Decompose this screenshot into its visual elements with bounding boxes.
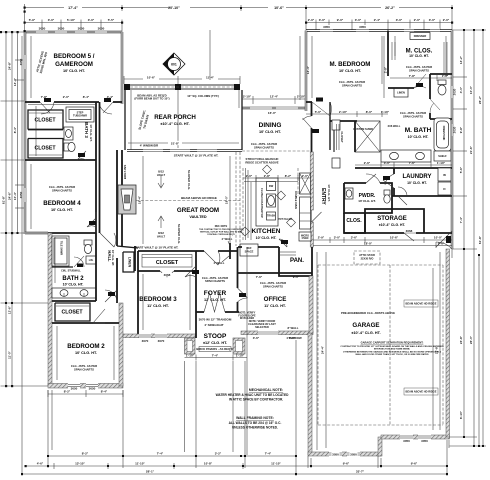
closet upper box bbox=[28, 110, 63, 130]
center long extension line bbox=[178, 30, 247, 455]
window 3050 b5 left bbox=[23, 55, 27, 69]
svg-text:10' CLG. HT.: 10' CLG. HT. bbox=[89, 124, 93, 142]
great room west wall lower bbox=[121, 212, 123, 246]
svg-text:IN ATTIC SPACE BY CONTRACTOR.: IN ATTIC SPACE BY CONTRACTOR. bbox=[229, 398, 283, 402]
svg-text:10" SQ. COLUMN (TYP.): 10" SQ. COLUMN (TYP.) bbox=[187, 94, 219, 98]
svg-text:13'-4": 13'-4" bbox=[306, 65, 310, 74]
svg-text:10'-6": 10'-6" bbox=[147, 76, 156, 80]
svg-text:VERTICAL OUTLET FOR WALL MTD T: VERTICAL OUTLET FOR WALL MTD TV AND bbox=[200, 230, 243, 233]
window 2020 mclos bbox=[404, 29, 414, 33]
stoop bottom dims bbox=[185, 355, 248, 361]
svg-text:VAULT: VAULT bbox=[157, 234, 166, 238]
kitchen east wall ovens bbox=[311, 108, 313, 116]
svg-text:8'-2": 8'-2" bbox=[64, 390, 71, 394]
corner tick dots bbox=[0, 11, 26, 305]
kitchen counter line bbox=[244, 181, 298, 183]
laundry top dim row bbox=[355, 162, 452, 168]
wall bedroom4 bottom bbox=[25, 232, 48, 234]
bath3 toilet bbox=[64, 142, 75, 151]
wall m block right bbox=[451, 31, 453, 250]
svg-text:CONCEAL CORDS AS REQ'D: CONCEAL CORDS AS REQ'D bbox=[207, 233, 235, 236]
svg-text:8/12: 8/12 bbox=[158, 231, 164, 235]
svg-text:BEDROOM 2: BEDROOM 2 bbox=[67, 343, 105, 350]
bath2 toilet bbox=[84, 240, 92, 254]
pwdr door bbox=[366, 174, 380, 183]
front door double swing bbox=[204, 293, 225, 312]
dim office top bbox=[256, 275, 300, 279]
svg-text:10' CLG. HT.: 10' CLG. HT. bbox=[358, 199, 376, 203]
pantry walls bbox=[279, 247, 312, 276]
svg-text:61'-8": 61'-8" bbox=[2, 195, 6, 204]
svg-text:8'-2": 8'-2" bbox=[82, 452, 89, 456]
svg-text:3050: 3050 bbox=[98, 26, 105, 30]
porch vert dim left bbox=[130, 90, 132, 150]
svg-text:3068: 3068 bbox=[164, 273, 171, 277]
row466 ticks bbox=[54, 463, 243, 469]
svg-text:10'-0": 10'-0" bbox=[434, 236, 443, 240]
svg-text:2'-0": 2'-0" bbox=[246, 174, 253, 178]
svg-text:WALL AND DOOR OTHER THAN 1-3/8: WALL AND DOOR OTHER THAN 1-3/8" THICK, O… bbox=[355, 353, 429, 356]
svg-text:17'-4": 17'-4" bbox=[68, 6, 78, 10]
window 3050 gar-4 bbox=[418, 434, 431, 443]
svg-text:OFFICE: OFFICE bbox=[264, 296, 287, 303]
hall east wall bbox=[116, 150, 118, 246]
svg-text:GARAGE CARPORT SEPARATION REQU: GARAGE CARPORT SEPARATION REQUIREMENT: bbox=[361, 341, 424, 345]
svg-text:VAULT: VAULT bbox=[157, 173, 166, 177]
window 3050 mb-1 bbox=[320, 25, 333, 33]
diamond marker 601 bbox=[163, 53, 185, 75]
svg-text:CLOSET: CLOSET bbox=[34, 118, 56, 124]
wall framing note bbox=[229, 416, 282, 430]
svg-text:SPAN CHARTS: SPAN CHARTS bbox=[409, 68, 429, 72]
svg-text:3'-0": 3'-0" bbox=[319, 18, 326, 22]
svg-text:9'-0": 9'-0" bbox=[337, 18, 344, 22]
window 3050 bed2-1 bbox=[68, 383, 80, 391]
svg-text:DOUBLE OVEN: DOUBLE OVEN bbox=[294, 191, 297, 209]
svg-text:LIN.: LIN. bbox=[89, 259, 94, 262]
svg-text:CLOSET: CLOSET bbox=[61, 310, 83, 316]
svg-text:4' WALL: 4' WALL bbox=[222, 237, 233, 241]
svg-text:ALL WALLS TO BE 2X4 @ 16" O.C.: ALL WALLS TO BE 2X4 @ 16" O.C. bbox=[229, 421, 282, 425]
garage separation note block bbox=[340, 341, 444, 357]
svg-text:10' CLG. HT.: 10' CLG. HT. bbox=[63, 283, 84, 287]
wall kitchen/pantry top bbox=[258, 246, 279, 248]
great room interior dims bbox=[143, 156, 230, 244]
vault arrow up bbox=[158, 175, 164, 188]
svg-text:11'-10": 11'-10" bbox=[135, 462, 145, 466]
left rotated dim labels bbox=[2, 61, 18, 314]
svg-text:2'-0": 2'-0" bbox=[443, 18, 450, 22]
svg-text:FOYER: FOYER bbox=[204, 290, 227, 297]
svg-text:3'-0": 3'-0" bbox=[355, 18, 362, 22]
garage side door bbox=[436, 231, 452, 249]
svg-text:TILE SHWR: TILE SHWR bbox=[60, 241, 64, 255]
svg-text:OTHERWISE BETWEEN THE GARAGE A: OTHERWISE BETWEEN THE GARAGE AND RESIDEN… bbox=[343, 350, 442, 353]
svg-text:POT FILLER: POT FILLER bbox=[278, 218, 292, 221]
exterior hatched wall bath2/bedroom2 left bbox=[48, 233, 52, 386]
svg-text:10'-4": 10'-4" bbox=[13, 191, 17, 200]
svg-text:KITCHEN: KITCHEN bbox=[252, 228, 281, 235]
svg-text:2'-10": 2'-10" bbox=[297, 95, 306, 99]
closet bed2 box bbox=[55, 303, 90, 321]
kitchen west counter solid bbox=[246, 168, 249, 240]
pendant diamond 4 bbox=[241, 227, 250, 236]
door swing b5 right bbox=[99, 102, 113, 114]
svg-text:26'-0": 26'-0" bbox=[469, 335, 473, 344]
wall dining left (porch) bbox=[241, 90, 243, 150]
bed2 door from hall bbox=[105, 290, 117, 302]
svg-text:SPAN CHARTS: SPAN CHARTS bbox=[74, 367, 94, 371]
svg-text:2'-10": 2'-10" bbox=[339, 110, 348, 114]
bottom-left extension lines bbox=[52, 361, 233, 452]
svg-text:START VAULT @ 10' PLATE HT.: START VAULT @ 10' PLATE HT. bbox=[174, 154, 219, 158]
svg-text:21'-8": 21'-8" bbox=[171, 141, 180, 145]
svg-text:14'-4": 14'-4" bbox=[13, 77, 17, 86]
pendant diamond 3 bbox=[287, 218, 296, 227]
svg-text:3'-6": 3'-6" bbox=[253, 336, 260, 340]
svg-text:3'-2": 3'-2" bbox=[215, 452, 222, 456]
top dim line row2 left bbox=[25, 20, 123, 35]
porch column right bbox=[234, 84, 240, 90]
bath2 vanity bbox=[52, 288, 96, 298]
svg-text:CLOSET: CLOSET bbox=[34, 146, 56, 152]
garage step wall bbox=[378, 437, 382, 456]
svg-text:BEDROOM 4: BEDROOM 4 bbox=[43, 200, 81, 207]
svg-text:BATH 2: BATH 2 bbox=[62, 276, 84, 282]
svg-text:10' CLG. HT.: 10' CLG. HT. bbox=[51, 208, 73, 212]
closet bed2 shelf bbox=[56, 305, 89, 307]
svg-text:3050: 3050 bbox=[89, 387, 96, 391]
svg-text:1'-10": 1'-10" bbox=[186, 353, 195, 357]
svg-text:9'-8": 9'-8" bbox=[459, 126, 463, 133]
window 3050 bed2-2 bbox=[86, 383, 98, 391]
foyer top door bbox=[204, 251, 220, 265]
wall foyer east bbox=[237, 247, 239, 288]
svg-text:5'-6": 5'-6" bbox=[459, 166, 463, 173]
bedroom3 door bbox=[185, 266, 196, 277]
dim 16-0 bbox=[266, 111, 279, 115]
kitchen west counter dashed bbox=[242, 168, 244, 240]
exterior hatched wall bedroom2 right bbox=[119, 303, 123, 386]
svg-text:OVEN: OVEN bbox=[302, 237, 309, 240]
svg-text:2'-8": 2'-8" bbox=[264, 174, 271, 178]
bath2 interior divider wall bbox=[52, 266, 73, 268]
svg-text:UNLESS OTHERWISE NOTED.: UNLESS OTHERWISE NOTED. bbox=[232, 426, 278, 430]
svg-text:SPAN CHARTS: SPAN CHARTS bbox=[254, 145, 274, 149]
svg-text:SPAN CHARTS: SPAN CHARTS bbox=[263, 284, 283, 288]
door swing b5 left bbox=[40, 102, 54, 114]
svg-text:4' SIDELIGHT: 4' SIDELIGHT bbox=[204, 323, 223, 327]
note brick pavers bbox=[196, 347, 234, 352]
garage top second dim row bbox=[313, 242, 452, 248]
wall m.bath bottom bbox=[355, 167, 452, 169]
window great room 3 bbox=[197, 149, 217, 153]
m.clos door bbox=[414, 74, 426, 88]
closet bed2 door bbox=[93, 309, 105, 323]
svg-text:10' CLG. HT.: 10' CLG. HT. bbox=[256, 236, 277, 240]
svg-text:23'-8": 23'-8" bbox=[435, 345, 439, 354]
svg-text:2'-4": 2'-4" bbox=[374, 18, 381, 22]
pwdr sink bbox=[345, 188, 353, 199]
svg-text:START VAULT @ 10' PLATE HT.: START VAULT @ 10' PLATE HT. bbox=[134, 246, 179, 250]
svg-text:12'-4": 12'-4" bbox=[270, 95, 279, 99]
stoop column right bbox=[233, 338, 245, 354]
svg-text:11'-0": 11'-0" bbox=[8, 350, 12, 359]
svg-text:24'-8": 24'-8" bbox=[459, 335, 463, 344]
label 4' window bbox=[284, 336, 304, 340]
window 3050 gar-3 bbox=[400, 434, 413, 443]
pendant diamond 1 bbox=[263, 165, 272, 174]
window 3050 b5-1 bbox=[36, 26, 48, 34]
svg-text:2030: 2030 bbox=[453, 126, 457, 133]
dining top dim bbox=[242, 96, 306, 104]
m.bath west hall wall bbox=[330, 120, 357, 122]
svg-text:24'-6": 24'-6" bbox=[8, 191, 12, 200]
svg-text:M. BATH: M. BATH bbox=[405, 127, 432, 134]
svg-text:GARAGE: GARAGE bbox=[352, 322, 379, 329]
svg-text:ENTRY: ENTRY bbox=[320, 188, 326, 205]
svg-text:24'-8": 24'-8" bbox=[8, 61, 12, 70]
svg-text:8'-0": 8'-0" bbox=[289, 336, 296, 340]
svg-text:WATER HEATER & HVAC UNIT TO BE: WATER HEATER & HVAC UNIT TO BE LOCATED bbox=[216, 393, 290, 397]
svg-text:16'-0": 16'-0" bbox=[268, 111, 277, 115]
kitchen island bbox=[256, 178, 278, 226]
pendant diamond 2 bbox=[277, 191, 286, 200]
garage extension lines bottom bbox=[308, 249, 452, 468]
closet lower shelf bbox=[29, 154, 62, 156]
window office south bbox=[258, 330, 278, 336]
window 2020 mclos2 bbox=[430, 29, 440, 33]
label linen m bbox=[394, 88, 408, 97]
svg-text:CML. STUDWALL: CML. STUDWALL bbox=[61, 270, 81, 273]
svg-text:10' CLG. HT.: 10' CLG. HT. bbox=[75, 351, 97, 355]
exterior wall office south bbox=[241, 331, 313, 335]
svg-text:2'-9": 2'-9" bbox=[318, 236, 325, 240]
svg-text:BATH 3: BATH 3 bbox=[84, 122, 89, 138]
svg-text:8' WALL: 8' WALL bbox=[288, 326, 299, 330]
label 3068 storage bbox=[404, 229, 414, 233]
wall bedroom5 right bbox=[121, 32, 123, 104]
svg-text:2X6 WALL: 2X6 WALL bbox=[388, 124, 401, 128]
dashed beam hd ridge bbox=[127, 200, 240, 202]
entry niche boxes bbox=[332, 120, 340, 168]
svg-text:7'-8": 7'-8" bbox=[409, 74, 416, 78]
laundry door bbox=[398, 187, 407, 205]
garage west wall hatched bbox=[308, 333, 312, 455]
svg-text:3'-0": 3'-0" bbox=[88, 18, 95, 22]
office east wall hatched bbox=[309, 276, 313, 333]
stoop column left bbox=[185, 338, 196, 354]
svg-text:10'-6": 10'-6" bbox=[390, 236, 399, 240]
porch dim labels bbox=[143, 75, 218, 80]
4' wall stub kitchen/foyer bbox=[229, 243, 231, 259]
svg-text:11'-4": 11'-4" bbox=[206, 76, 215, 80]
window 3050 gar-1 bbox=[329, 451, 342, 457]
svg-text:3'-0": 3'-0" bbox=[334, 236, 341, 240]
svg-text:FLUSH COUNTERTOP: FLUSH COUNTERTOP bbox=[260, 188, 264, 218]
svg-text:10' CLG. HT.: 10' CLG. HT. bbox=[63, 69, 85, 73]
svg-text:3050: 3050 bbox=[350, 452, 357, 456]
window 3050 b5-4 bbox=[95, 26, 107, 34]
svg-text:±12' CLG. HT.: ±12' CLG. HT. bbox=[203, 341, 227, 345]
svg-text:SPAN CHARTS: SPAN CHARTS bbox=[205, 279, 225, 283]
svg-text:SPAN CHARTS: SPAN CHARTS bbox=[342, 83, 362, 87]
svg-text:10'-6": 10'-6" bbox=[274, 6, 284, 10]
svg-text:10' CLG. HT.: 10' CLG. HT. bbox=[259, 130, 281, 134]
window great room 2 bbox=[170, 149, 190, 153]
svg-text:FREESTAND: FREESTAND bbox=[442, 126, 445, 141]
svg-text:TUB/SHWR: TUB/SHWR bbox=[73, 114, 87, 118]
svg-text:3050: 3050 bbox=[71, 387, 78, 391]
wall m.bedroom bottom bbox=[306, 101, 312, 103]
svg-text:SPAN CHARTS: SPAN CHARTS bbox=[52, 188, 72, 192]
svg-text:601: 601 bbox=[171, 63, 177, 67]
garage door label bbox=[446, 236, 451, 243]
dashed ceiling break dining bbox=[242, 150, 310, 152]
m.toilet room bbox=[430, 74, 452, 119]
right extra dim line bbox=[478, 255, 480, 446]
wall closet bed3 bottom bbox=[138, 270, 160, 272]
svg-text:8'-2": 8'-2" bbox=[285, 174, 292, 178]
window right m.toilet bbox=[450, 86, 454, 98]
svg-text:7'-4": 7'-4" bbox=[459, 216, 463, 223]
window dining bbox=[250, 106, 298, 110]
label 3068 bbox=[162, 273, 172, 277]
closet upper shelf bbox=[29, 112, 62, 114]
wall bedroom3 west bbox=[137, 271, 139, 334]
svg-text:21'-6": 21'-6" bbox=[469, 145, 473, 154]
svg-text:INTERSECTION AND TAMB MEMB.: INTERSECTION AND TAMB MEMB. bbox=[374, 348, 411, 351]
wall m.bedroom top bbox=[306, 29, 452, 31]
kitchen counter east dashed bbox=[297, 168, 299, 196]
kitchen interior dim bbox=[250, 182, 252, 240]
svg-text:3'-6": 3'-6" bbox=[351, 236, 358, 240]
svg-text:3050: 3050 bbox=[19, 191, 23, 198]
window 3070 bed3-2 bbox=[155, 333, 167, 343]
dim 21-8 bbox=[168, 141, 182, 145]
svg-text:LINEN: LINEN bbox=[397, 91, 405, 95]
svg-text:61'-8": 61'-8" bbox=[478, 235, 482, 244]
svg-text:1'-10": 1'-10" bbox=[381, 110, 390, 114]
kitchen tall cabinet bbox=[300, 197, 311, 229]
svg-text:18'-0": 18'-0" bbox=[364, 241, 373, 245]
double oven bbox=[294, 173, 311, 209]
svg-text:BUILT-INS: BUILT-INS bbox=[123, 165, 127, 179]
svg-text:3050: 3050 bbox=[39, 26, 46, 30]
svg-text:SPACE: SPACE bbox=[245, 249, 254, 253]
svg-text:1'-10": 1'-10" bbox=[236, 353, 245, 357]
svg-text:26'-2": 26'-2" bbox=[478, 95, 482, 104]
svg-text:7'-4": 7'-4" bbox=[212, 353, 219, 357]
svg-text:2'-0": 2'-0" bbox=[302, 174, 309, 178]
window 3050 gar-2 bbox=[347, 451, 360, 457]
bath3 tub box bbox=[66, 107, 94, 122]
svg-text:CONTRACTOR TO PROVIDE 1/2" GYP: CONTRACTOR TO PROVIDE 1/2" GYPSUM WALL B… bbox=[340, 345, 444, 348]
wall m.bedroom/m.clos bbox=[387, 31, 389, 77]
closet lower box bbox=[28, 139, 63, 159]
svg-text:2'-0": 2'-0" bbox=[308, 18, 315, 22]
svg-text:PRE-ENGINEERED CLG. JOISTS ABO: PRE-ENGINEERED CLG. JOISTS ABOVE bbox=[341, 311, 395, 315]
wall bedroom3 west upper bbox=[134, 246, 136, 271]
svg-text:BEAM ABOVE HD RIDGE: BEAM ABOVE HD RIDGE bbox=[406, 302, 437, 306]
window 3050 b5-2 bbox=[55, 26, 67, 34]
svg-text:3050: 3050 bbox=[323, 25, 330, 29]
svg-text:CUSTOM SHWR: CUSTOM SHWR bbox=[353, 127, 373, 131]
linen box bbox=[123, 252, 134, 272]
svg-text:3050: 3050 bbox=[359, 25, 366, 29]
m.toilet bbox=[438, 80, 446, 95]
svg-text:10'-8": 10'-8" bbox=[204, 462, 213, 466]
svg-text:3050: 3050 bbox=[58, 26, 65, 30]
top dim line row2 right bbox=[306, 20, 452, 33]
svg-text:REAR PORCH: REAR PORCH bbox=[154, 114, 196, 121]
entry-storage door bbox=[312, 210, 322, 222]
entry vestibule west wall bbox=[311, 102, 313, 108]
svg-text:CLOSET: CLOSET bbox=[156, 260, 179, 266]
svg-text:SLOPED CLG.: SLOPED CLG. bbox=[187, 170, 191, 191]
porch beam dashed center bbox=[130, 86, 234, 88]
svg-text:THE CONTRACTOR TO PROVIDE OVER: THE CONTRACTOR TO PROVIDE OVERSIZED bbox=[199, 228, 243, 231]
office door bbox=[238, 288, 248, 302]
beam label 2 bbox=[404, 388, 438, 395]
svg-text:3050: 3050 bbox=[332, 452, 339, 456]
svg-text:STORAGE: STORAGE bbox=[377, 216, 407, 222]
svg-text:5'-5": 5'-5" bbox=[108, 18, 115, 22]
svg-text:7'-6": 7'-6" bbox=[409, 161, 416, 165]
svg-text:2'-0": 2'-0" bbox=[414, 18, 421, 22]
closet bed3 inner shelf bbox=[142, 255, 192, 268]
svg-text:8/12: 8/12 bbox=[158, 170, 164, 174]
front wall stoop left bbox=[196, 311, 204, 313]
bath3/bed4 divider bbox=[25, 159, 96, 161]
svg-text:GAMEROOM: GAMEROOM bbox=[55, 61, 93, 68]
svg-text:3070: 3070 bbox=[158, 339, 165, 343]
svg-text:ATTIC STAIR: ATTIC STAIR bbox=[359, 253, 375, 257]
svg-text:3050: 3050 bbox=[78, 26, 85, 30]
svg-text:14'-2": 14'-2" bbox=[459, 55, 463, 64]
bath2 door tag bbox=[77, 264, 83, 268]
svg-text:3070 W/ 12" TRANSOM: 3070 W/ 12" TRANSOM bbox=[199, 317, 232, 321]
wall foyer top bbox=[196, 250, 204, 252]
label 3070 transom bbox=[200, 317, 230, 321]
m.bedroom interior dim bbox=[312, 36, 384, 98]
svg-text:DW: DW bbox=[269, 184, 274, 188]
svg-text:11' CLG. HT.: 11' CLG. HT. bbox=[264, 304, 286, 308]
window great room 1 bbox=[143, 149, 163, 153]
wall m.bedroom left bbox=[305, 31, 307, 112]
svg-text:4' WALL: 4' WALL bbox=[214, 261, 225, 265]
svg-text:8'-4": 8'-4" bbox=[101, 390, 108, 394]
left interior vertical dim bedroom5 bbox=[31, 36, 55, 283]
svg-text:M. BEDROOM: M. BEDROOM bbox=[330, 61, 371, 68]
svg-text:19'-4": 19'-4" bbox=[138, 195, 142, 204]
garage south wall left bbox=[308, 452, 381, 456]
garage interior dim verticals bbox=[326, 252, 433, 448]
svg-text:3050: 3050 bbox=[19, 58, 23, 65]
laundry walls bbox=[392, 195, 452, 197]
svg-text:10' CLG. HT.: 10' CLG. HT. bbox=[327, 184, 331, 202]
svg-text:3070: 3070 bbox=[142, 339, 149, 343]
closet bed3 box outline bbox=[138, 250, 196, 252]
svg-text:WALL FRAMING NOTE:: WALL FRAMING NOTE: bbox=[236, 416, 274, 420]
bedroom3 interior dim bbox=[143, 274, 190, 330]
svg-text:PAN.: PAN. bbox=[290, 258, 304, 264]
svg-text:W/ BUILDER: W/ BUILDER bbox=[240, 317, 254, 320]
svg-text:9'-6": 9'-6" bbox=[438, 241, 445, 245]
garage east wall bbox=[446, 249, 450, 437]
svg-text:9'-6": 9'-6" bbox=[343, 462, 350, 466]
svg-text:8'-4": 8'-4" bbox=[83, 95, 90, 99]
